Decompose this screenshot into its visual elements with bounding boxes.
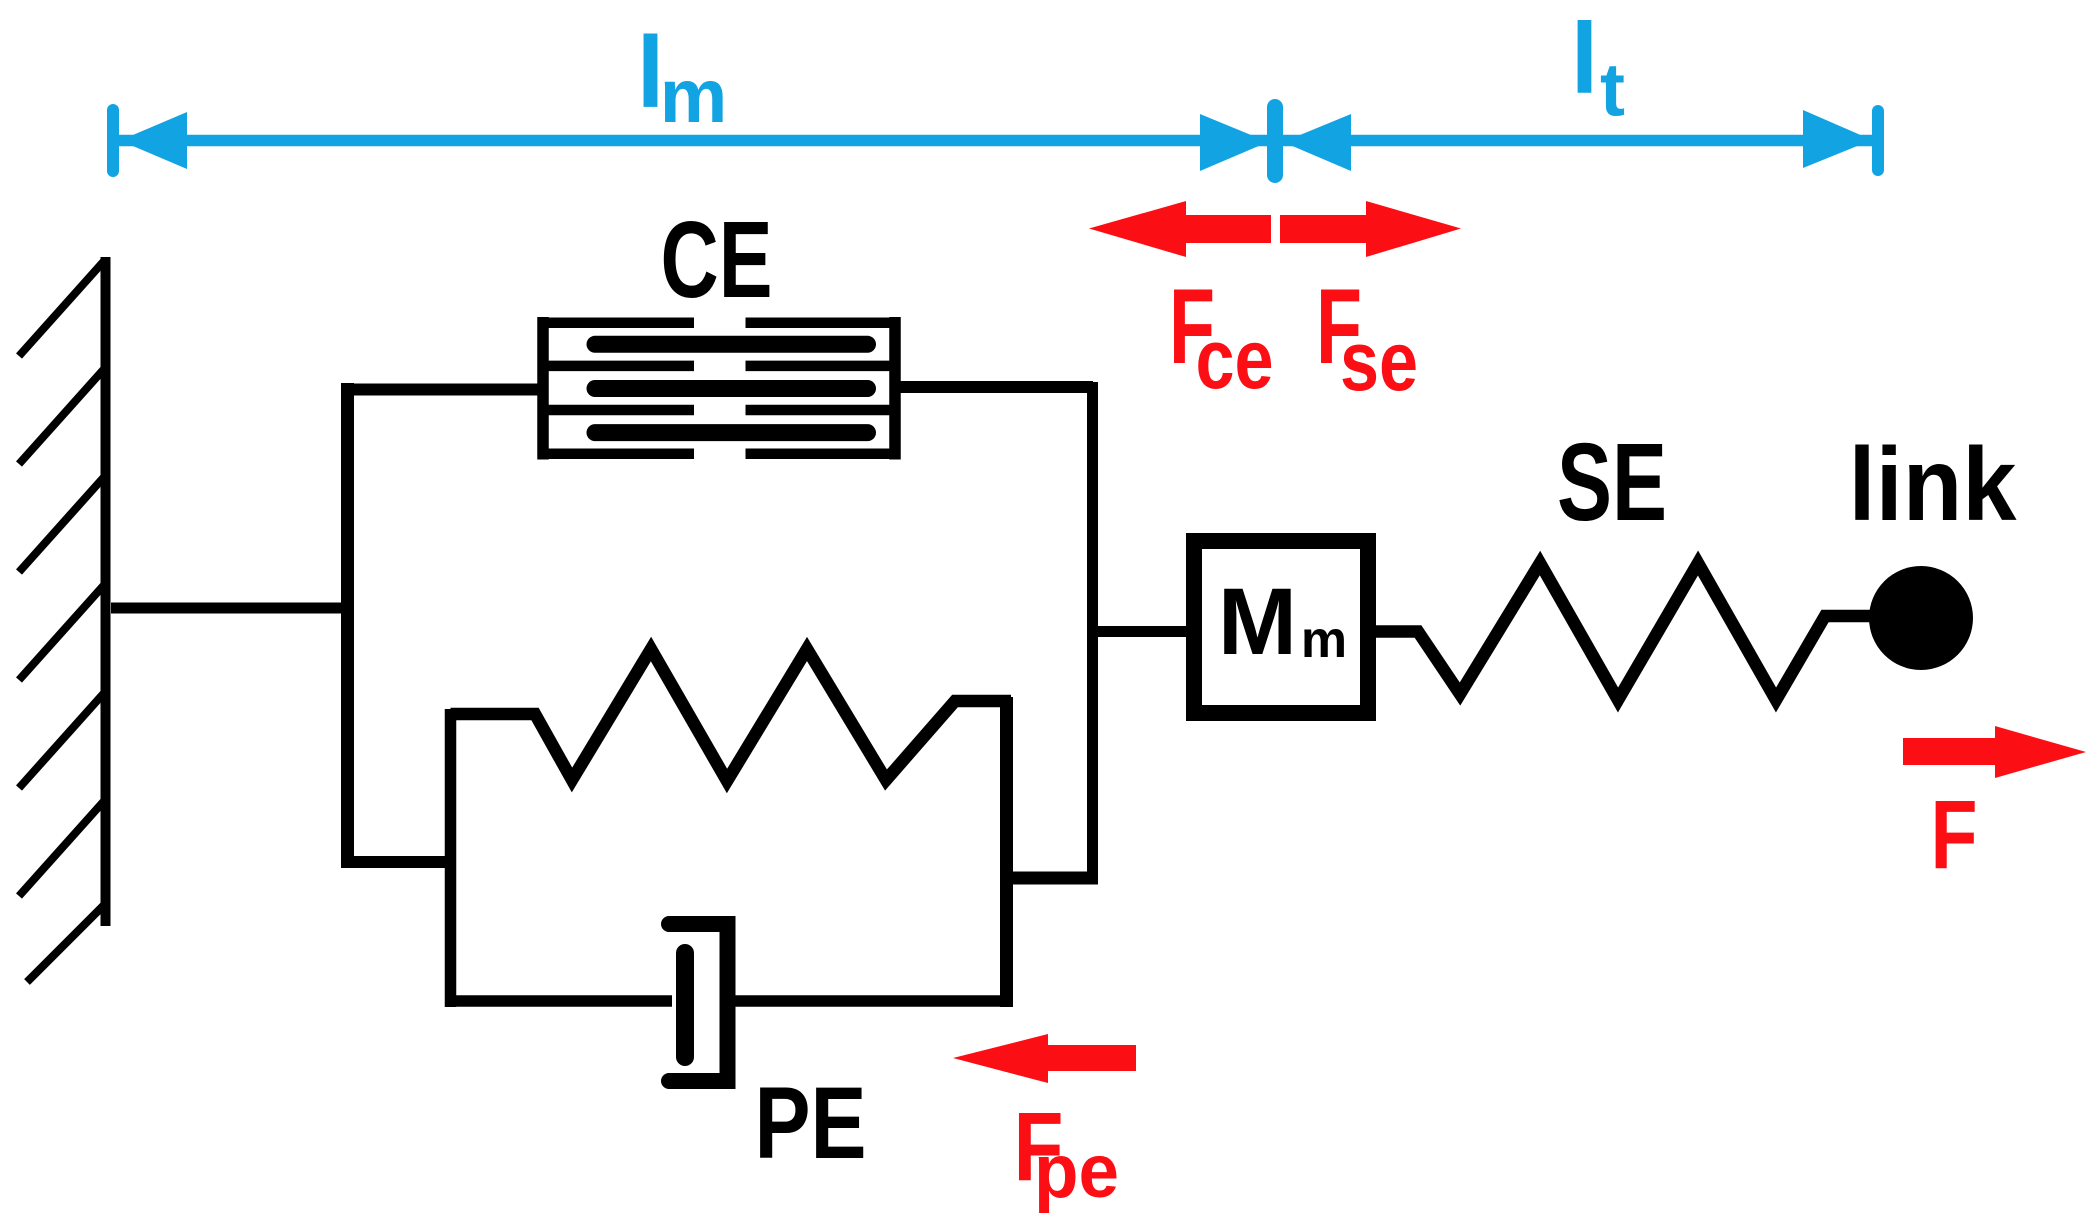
label Fse bbox=[1316, 266, 1418, 408]
svg-text:pe: pe bbox=[1034, 1129, 1119, 1214]
svg-text:CE: CE bbox=[661, 199, 773, 321]
wire wall to left node bbox=[111, 603, 350, 614]
svg-text:PE: PE bbox=[755, 1066, 867, 1180]
force arrow Fse (right) bbox=[1280, 201, 1461, 257]
svg-text:M: M bbox=[1218, 569, 1297, 675]
svg-text:t: t bbox=[1600, 48, 1625, 132]
dimension lt line bbox=[1283, 105, 1884, 176]
label Mm bbox=[1218, 569, 1347, 675]
force arrow Fpe (points left) bbox=[953, 1034, 1136, 1083]
force arrow Fce (left) bbox=[1089, 201, 1271, 257]
damper PE cup bbox=[669, 924, 728, 1081]
wire right node to mass bbox=[1098, 626, 1190, 637]
svg-text:ce: ce bbox=[1196, 312, 1274, 406]
wire mass to SE spring bbox=[1376, 626, 1422, 637]
node bar left bbox=[341, 383, 354, 868]
PE branch left vertical bbox=[445, 709, 457, 1007]
link node circle bbox=[1869, 566, 1973, 670]
PE spring bbox=[451, 649, 1012, 781]
svg-text:F: F bbox=[1931, 780, 1978, 889]
node bar right bbox=[1087, 382, 1098, 884]
contractile element CE symbol bbox=[543, 317, 895, 460]
label lt bbox=[1571, 3, 1625, 132]
mass Mm box bbox=[1194, 541, 1368, 713]
label Fpe bbox=[1014, 1092, 1120, 1214]
wire CE to right node bbox=[895, 381, 1093, 393]
damper PE piston bbox=[676, 953, 694, 1057]
dimension lm line bbox=[107, 99, 1283, 183]
svg-text:m: m bbox=[660, 54, 728, 139]
wire right node bottom bbox=[1001, 872, 1098, 885]
SE spring bbox=[1376, 563, 1872, 700]
label lm bbox=[636, 17, 727, 139]
svg-text:se: se bbox=[1340, 314, 1418, 408]
label Fce bbox=[1169, 266, 1274, 406]
wire left node to CE bbox=[347, 384, 543, 396]
svg-text:SE: SE bbox=[1557, 421, 1667, 544]
svg-text:m: m bbox=[1301, 611, 1347, 669]
PE branch right vertical bbox=[1000, 697, 1013, 1007]
svg-text:link: link bbox=[1849, 427, 2017, 543]
wall bbox=[19, 257, 106, 982]
svg-text:l: l bbox=[1571, 3, 1599, 115]
force arrow F (points right) bbox=[1903, 726, 2086, 778]
wire left node bottom bbox=[347, 856, 456, 868]
PE branch bottom rail bbox=[445, 995, 672, 1007]
